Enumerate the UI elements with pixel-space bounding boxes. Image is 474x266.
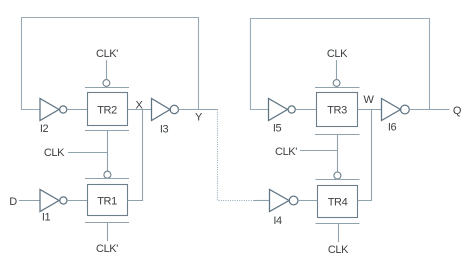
wire: I3 output, node Y	[179, 109, 218, 111]
inverter I2	[40, 99, 67, 121]
wire: TR1 output up to node X	[128, 110, 143, 201]
wire: I4 output to TR4	[298, 200, 318, 202]
wire: TR3 output to I6 input (node W)	[358, 109, 382, 111]
wire: TR4 output up to node W	[358, 110, 372, 201]
svg-text:W: W	[364, 94, 375, 106]
TR3 top gate plate	[315, 87, 360, 89]
svg-text:CLK: CLK	[44, 147, 65, 159]
svg-text:I6: I6	[388, 122, 397, 134]
wire: CLK label to gate riser	[68, 152, 108, 154]
wire: CLK' down to TR2 top gate bubble	[106, 60, 108, 80]
TR1 bottom gate plate	[85, 222, 129, 224]
svg-text:TR2: TR2	[97, 105, 117, 117]
transmission gate TR1	[88, 185, 128, 216]
svg-text:CLK: CLK	[328, 244, 349, 256]
wire: dashed feedforward Y down to I4	[218, 110, 255, 201]
TR3 bottom gate plate	[315, 134, 360, 136]
svg-text:I5: I5	[273, 123, 282, 135]
svg-text:TR3: TR3	[327, 105, 347, 117]
wire: TR3 bottom gate down to TR4 top gate bubble	[337, 135, 339, 173]
TR2 top gate bubble	[103, 80, 110, 87]
TR4 top gate bubble	[334, 172, 341, 179]
wire: TR4 bottom gate down to CLK	[338, 224, 340, 243]
wire: CLK down to TR3 top gate bubble	[336, 60, 338, 80]
TR1 top gate bubble	[104, 171, 111, 178]
inverter I3	[152, 99, 179, 121]
svg-text:I2: I2	[40, 123, 49, 135]
svg-text:CLK': CLK'	[96, 48, 118, 60]
wire: solid stub into I4 input	[254, 200, 270, 202]
wire: master latch feedback loop from node Y to I2 input	[22, 18, 199, 110]
wire: TR2 bottom gate down to TR1 top gate bubble	[107, 131, 109, 172]
inverter I5	[269, 99, 296, 121]
wire: I5 output to TR3	[295, 109, 316, 111]
inverter I4	[270, 190, 299, 212]
svg-text:CLK': CLK'	[96, 243, 118, 255]
svg-text:I4: I4	[273, 215, 282, 227]
svg-text:I1: I1	[42, 212, 51, 224]
svg-text:D: D	[9, 196, 17, 208]
wire: I6 output to node Q	[409, 109, 449, 111]
TR2 bottom gate plate	[85, 130, 129, 132]
transmission gate TR3	[317, 93, 358, 127]
svg-text:TR1: TR1	[97, 196, 117, 208]
svg-text:Q: Q	[453, 105, 462, 117]
svg-text:CLK: CLK	[327, 48, 348, 60]
wire: slave latch feedback loop from node Q to I5 input	[251, 19, 430, 110]
TR4 bottom gate plate	[316, 223, 360, 225]
inverter I1	[40, 190, 67, 212]
svg-text:X: X	[136, 100, 144, 112]
transmission gate TR2	[88, 93, 128, 126]
TR2 top gate plate	[85, 87, 129, 89]
svg-text:Y: Y	[195, 112, 203, 124]
wire: TR1 bottom gate down to CLK'	[107, 223, 109, 242]
wire: TR2 output to I3 input (node X)	[128, 109, 152, 111]
TR3 top gate bubble	[333, 80, 340, 87]
transmission gate TR4	[318, 186, 358, 218]
svg-text:CLK': CLK'	[275, 146, 297, 158]
wire: I2 output to TR2	[67, 109, 87, 111]
inverter I6	[382, 99, 410, 121]
wire: D to I1 input	[19, 200, 40, 202]
TR1 top gate plate	[85, 178, 129, 180]
svg-text:I3: I3	[160, 124, 169, 136]
svg-text:TR4: TR4	[328, 197, 348, 209]
wire: I1 output to TR1	[67, 200, 87, 202]
TR4 top gate plate	[316, 179, 360, 181]
wire: CLK' label to gate riser	[300, 150, 338, 152]
